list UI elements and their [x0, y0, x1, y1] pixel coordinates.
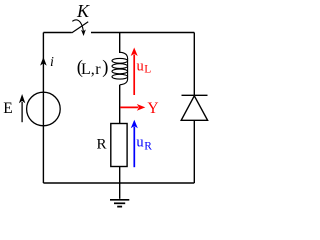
wire middle below resistor [119, 167, 121, 184]
ground bar 2 [114, 202, 125, 204]
source E circle [27, 92, 61, 126]
current i arrowhead [40, 57, 47, 66]
switch K arrowhead [81, 30, 86, 37]
svg-text:R: R [144, 140, 152, 152]
svg-text:R: R [97, 137, 107, 153]
svg-text:): ) [102, 58, 108, 78]
ground bar 1 [110, 199, 129, 201]
diode cathode bar [182, 94, 208, 96]
svg-text:K: K [76, 1, 90, 21]
diode triangle [181, 96, 207, 121]
ground stub [119, 183, 121, 199]
wire top right segment [91, 32, 194, 34]
voltage arrow uL (red) [133, 55, 135, 96]
inductor turn 3 [112, 69, 128, 74]
svg-text:E: E [3, 100, 12, 117]
inductor turn 4 [112, 74, 128, 79]
wire middle top [119, 33, 121, 54]
svg-text:L: L [144, 64, 151, 76]
svg-text:r: r [95, 61, 101, 78]
wire bottom horizontal [43, 182, 194, 184]
inductor right connector [127, 58, 129, 79]
wire left vertical [42, 33, 44, 184]
svg-text:L,: L, [81, 61, 95, 78]
wire middle between coil and resistor [119, 85, 121, 124]
wire right vertical upper [193, 33, 195, 96]
voltage arrow uR (blue) [133, 127, 135, 168]
inductor coil exit [120, 79, 128, 85]
svg-text:Y: Y [147, 100, 158, 117]
ground bar 3 [117, 206, 122, 208]
resistor R box [111, 124, 127, 167]
wire top left segment [43, 32, 71, 34]
node Y arrow (red) [120, 106, 138, 108]
switch K lever [72, 22, 89, 33]
switch K motion arc [72, 20, 83, 31]
inductor coil entry [120, 52, 128, 58]
svg-text:i: i [50, 55, 54, 70]
inductor turn 1 [112, 58, 128, 63]
source E arrow [21, 102, 23, 122]
svg-text:u: u [136, 134, 143, 150]
svg-text:u: u [137, 58, 144, 74]
inductor turn 2 [112, 64, 128, 69]
wire right vertical lower [193, 120, 195, 183]
